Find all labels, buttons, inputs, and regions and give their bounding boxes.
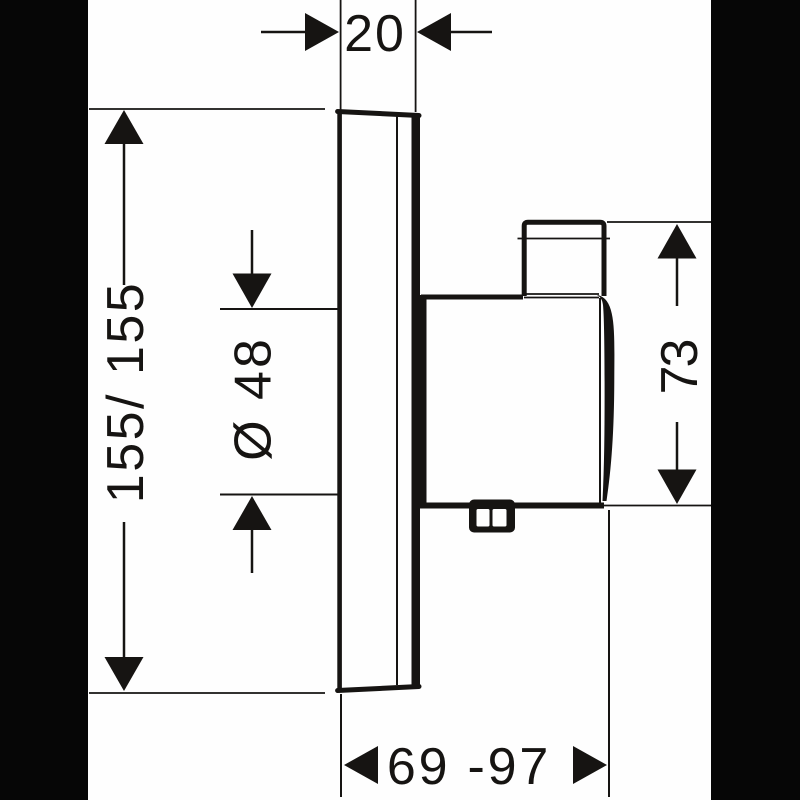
- dim 20 label: [344, 5, 406, 63]
- valve body right edge: [599, 298, 601, 504]
- dim 73 bottom arrowhead: [658, 470, 697, 505]
- escutcheon plate bottom edge: [338, 687, 419, 691]
- dim 73 top extension line: [607, 221, 711, 223]
- svg-text:69 -97: 69 -97: [387, 738, 551, 796]
- dim 73 top arrowhead: [658, 224, 697, 259]
- dim 155/155 upper stem: [123, 143, 126, 285]
- escutcheon plate top edge: [338, 112, 419, 116]
- bottom nub right window: [493, 509, 507, 527]
- dim diameter 48 label: [225, 336, 283, 461]
- svg-text:Ø 48: Ø 48: [225, 336, 283, 461]
- temperature knob chamfer line: [518, 238, 611, 240]
- dim 155/155 lower stem: [123, 522, 126, 658]
- dim 20 right arrowhead: [417, 13, 451, 51]
- dim diameter 48 lower stem: [251, 529, 254, 573]
- bottom nub left window: [477, 509, 490, 527]
- dim 20 right extension line: [415, 0, 417, 112]
- dim diameter 48 top extension line: [220, 308, 338, 310]
- valve body top edge: [421, 295, 523, 300]
- dim 20 left extension line: [340, 0, 342, 110]
- dim 20 right leader line: [450, 31, 492, 34]
- dim 69-97 label: [387, 738, 551, 796]
- dim 20 left arrowhead: [305, 13, 339, 51]
- dim 69-97 left extension line: [340, 694, 342, 797]
- dim diameter 48 bottom extension line: [220, 494, 338, 496]
- valve body convex side bulge: [597, 295, 614, 501]
- temperature knob outline: [524, 222, 604, 296]
- dim 73 lower stem: [676, 422, 679, 471]
- dim 69-97 right extension line: [608, 510, 610, 797]
- valve body left edge band: [420, 295, 427, 508]
- escutcheon plate left edge: [337, 110, 342, 692]
- svg-text:73: 73: [651, 341, 709, 395]
- bottom nub housing: [469, 500, 515, 533]
- dim 73 bottom extension line: [604, 505, 711, 507]
- escutcheon plate right edge band: [412, 114, 421, 689]
- dim 155/155 top arrowhead: [105, 110, 144, 144]
- escutcheon plate inner face line: [396, 114, 398, 685]
- dim diameter 48 upper arrowhead: [233, 274, 272, 309]
- svg-text:20: 20: [344, 5, 406, 63]
- dim 69-97 left arrowhead: [344, 746, 378, 784]
- dim 69-97 right arrowhead: [573, 746, 607, 784]
- right black letterbox bar: [711, 0, 800, 800]
- dim 155/155 bottom arrowhead: [105, 657, 144, 691]
- dim 73 upper stem: [676, 257, 679, 306]
- svg-text:155/ 155: 155/ 155: [97, 281, 155, 503]
- dim diameter 48 lower arrowhead: [233, 496, 272, 530]
- left black letterbox bar: [0, 0, 88, 800]
- dim diameter 48 upper stem: [251, 230, 254, 275]
- valve body top second thin line under knob: [524, 297, 599, 299]
- dim 155/155 label: [97, 281, 155, 503]
- valve body bottom edge: [420, 503, 604, 509]
- dim 155/155 top extension line: [89, 108, 325, 110]
- dim 73 label: [651, 341, 709, 395]
- dim 20 left leader line: [261, 31, 307, 34]
- valve body top thin line under knob: [524, 293, 599, 295]
- dim 155/155 bottom extension line: [89, 692, 325, 694]
